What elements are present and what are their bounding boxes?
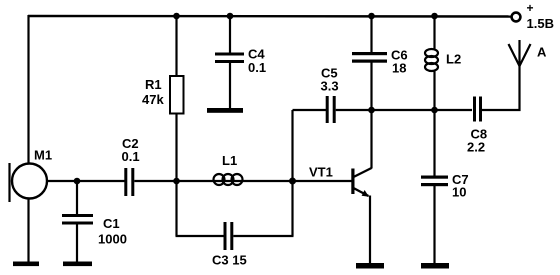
- wire C6 top lead: [370, 16, 372, 53]
- label C2 value 0.1: [122, 136, 140, 164]
- node junction L1/C3/C5/base: [289, 178, 296, 185]
- antenna A: [509, 40, 531, 111]
- svg-text:+: +: [527, 1, 534, 15]
- label R1 value 47k: [142, 77, 164, 107]
- wire M1 output to C2: [47, 180, 125, 182]
- wire C4 top lead: [229, 16, 231, 54]
- wire mid rail C5 to C8: [372, 109, 473, 111]
- wire M1 bottom to ground: [27, 198, 29, 263]
- wire C6 bottom lead: [370, 63, 372, 111]
- label C8 value 2.2: [467, 127, 487, 155]
- node junction rail/C6: [368, 13, 375, 20]
- wire R1 bottom lead: [175, 114, 177, 182]
- wire L1 section: [177, 180, 293, 182]
- capacitor C4: [215, 53, 244, 64]
- label C1 value 1000: [98, 216, 127, 247]
- label C5 value 3.3: [321, 66, 339, 94]
- wire VT1 collector up to mid rail: [370, 110, 372, 169]
- svg-text:C3 15: C3 15: [212, 253, 247, 268]
- svg-text:2.2: 2.2: [467, 140, 485, 155]
- wire VT1 base: [293, 180, 353, 182]
- ground under M1: [13, 262, 39, 267]
- svg-text:A: A: [537, 45, 547, 60]
- node junction C5/C6/collector: [368, 107, 375, 114]
- resistor R1: [170, 76, 184, 114]
- ground under C1: [63, 262, 92, 267]
- wire C3 loop bottom left: [176, 235, 225, 237]
- ground under C4: [207, 108, 243, 113]
- ground under VT1 emitter: [356, 263, 384, 269]
- wire C7 top lead: [433, 110, 435, 176]
- transistor VT1: [351, 168, 371, 197]
- svg-text:M1: M1: [34, 148, 52, 163]
- svg-text:R1: R1: [145, 77, 162, 92]
- node junction C2/R1/L1: [173, 178, 180, 185]
- wire C8 to antenna: [482, 109, 521, 111]
- wire top supply rail: [28, 15, 512, 18]
- wire left drop from rail to microphone: [27, 15, 29, 164]
- node junction rail/L2: [431, 13, 438, 20]
- battery positive terminal 1.5V: [512, 1, 554, 31]
- wire C7 bottom lead: [433, 186, 435, 264]
- svg-text:0.1: 0.1: [248, 60, 266, 75]
- capacitor C7: [421, 176, 448, 187]
- label C6 value 18: [391, 48, 408, 76]
- svg-text:10: 10: [452, 185, 466, 200]
- wire R1 top lead: [175, 16, 177, 78]
- wire C1 bottom lead: [76, 225, 78, 264]
- wire L2 bottom lead: [433, 70, 435, 110]
- capacitor C1: [62, 214, 93, 225]
- svg-text:L1: L1: [222, 153, 237, 168]
- svg-text:1.5В: 1.5В: [527, 16, 554, 31]
- label C4 value 0.1: [248, 47, 266, 76]
- node junction M1/C1: [74, 178, 81, 185]
- svg-text:47k: 47k: [142, 92, 164, 107]
- wire C5 left lead: [293, 109, 327, 111]
- inductor L1: [214, 174, 243, 185]
- svg-text:VT1: VT1: [309, 165, 333, 180]
- capacitor C3: [224, 222, 234, 250]
- wire C5 right lead: [336, 109, 372, 111]
- capacitor C2: [124, 168, 134, 196]
- capacitor C5: [326, 96, 336, 123]
- capacitor C8: [473, 97, 482, 122]
- wire C4 bottom lead: [229, 63, 231, 109]
- wire C1 top lead: [76, 181, 78, 216]
- svg-text:C1: C1: [103, 216, 120, 231]
- node junction L2/C7/mid rail: [431, 107, 438, 114]
- wire C3 loop right leg up to C5 branch: [291, 110, 293, 236]
- wire C2 to node A: [134, 180, 176, 182]
- ground under C7: [421, 263, 449, 269]
- label C7 value 10: [452, 172, 469, 200]
- svg-text:3.3: 3.3: [321, 79, 339, 94]
- node junction rail/R1: [173, 13, 180, 20]
- inductor L2: [425, 49, 438, 71]
- svg-text:L2: L2: [446, 52, 461, 67]
- capacitor C6: [352, 52, 387, 63]
- microphone M1: [10, 163, 48, 202]
- wire VT1 emitter down to ground: [369, 196, 371, 265]
- wire C3 loop left leg: [175, 181, 177, 236]
- wire L2 top lead: [433, 16, 435, 50]
- svg-text:1000: 1000: [98, 232, 127, 247]
- svg-text:18: 18: [392, 61, 406, 76]
- node junction rail/C4: [227, 13, 234, 20]
- svg-text:0.1: 0.1: [122, 149, 140, 164]
- wire C3 loop bottom right: [233, 235, 293, 237]
